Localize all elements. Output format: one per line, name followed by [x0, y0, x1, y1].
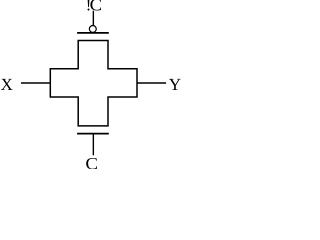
top gate plate [77, 32, 109, 34]
node label !C (top): C [90, 0, 101, 10]
wire: !C to bubble [92, 11, 94, 26]
wire: right arm to Y [137, 82, 166, 84]
node label X [1, 79, 13, 90]
node label Y [169, 79, 181, 90]
wire: X to left arm [21, 82, 50, 84]
wire: bottom plate to C [92, 134, 94, 156]
bottom gate plate [77, 133, 109, 135]
transmission gate body (cross) [50, 41, 137, 126]
node label !C (top): exclamation [88, 0, 90, 11]
inversion bubble [89, 26, 96, 33]
node label C (bottom) [86, 158, 97, 169]
